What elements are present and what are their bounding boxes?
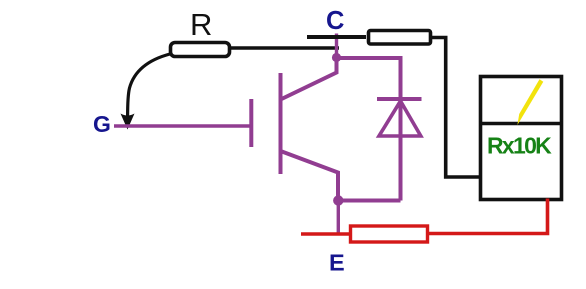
meter box bbox=[481, 77, 562, 200]
svg-text:R: R bbox=[190, 7, 212, 42]
meter divider bbox=[479, 122, 563, 126]
node E junction dot bbox=[333, 195, 343, 205]
IGBT gate bar bbox=[249, 99, 253, 147]
resistor R3 (red, emitter shunt) bbox=[351, 226, 428, 242]
wire (red rail left stub) bbox=[301, 232, 350, 236]
diode cathode bar bbox=[377, 97, 422, 101]
wire (collector riser to node C) bbox=[335, 34, 338, 59]
wire (collector dot to diode top) bbox=[337, 58, 401, 201]
resistor R bbox=[171, 43, 230, 57]
wire (collector stub under C) bbox=[307, 35, 366, 39]
IGBT collector lead bbox=[281, 57, 337, 100]
arrowhead at gate bbox=[121, 114, 135, 130]
svg-text:Rx10K: Rx10K bbox=[487, 133, 552, 159]
diode D1 triangle bbox=[379, 101, 421, 136]
wire (gate lead) bbox=[114, 124, 250, 127]
IGBT emitter lead bbox=[281, 151, 339, 200]
wire (emitter down to red rail) bbox=[337, 201, 340, 236]
meter needle bbox=[517, 79, 543, 125]
node C junction dot bbox=[332, 53, 341, 62]
svg-text:G: G bbox=[93, 111, 111, 137]
IGBT body bar bbox=[279, 73, 283, 174]
svg-text:E: E bbox=[329, 250, 345, 276]
wire (red rail right to meter bottom) bbox=[427, 199, 548, 234]
svg-text:C: C bbox=[326, 7, 344, 35]
wire (resistor R right lead to node under C) bbox=[229, 46, 339, 50]
wire (diode bottom to emitter node) bbox=[339, 199, 401, 203]
wire (curved arrow from R to gate) bbox=[128, 54, 170, 117]
resistor R2 (top right) bbox=[369, 31, 431, 45]
wire (R2 to meter, down and right) bbox=[430, 38, 481, 178]
